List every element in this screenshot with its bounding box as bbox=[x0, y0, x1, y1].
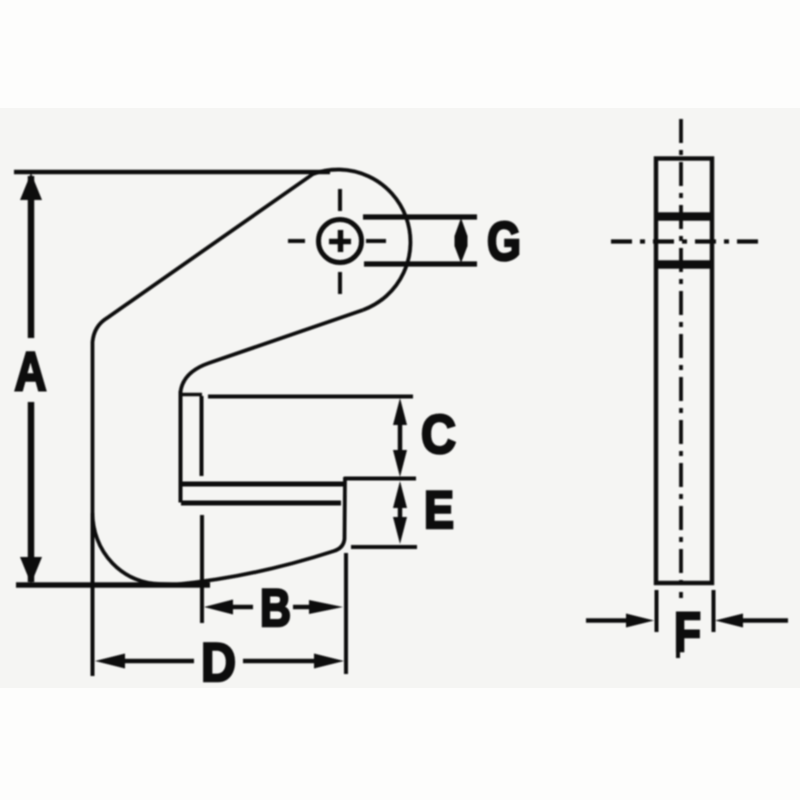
F arrow shafts bbox=[586, 618, 788, 623]
A arrow down bbox=[20, 557, 42, 584]
svg-text:G: G bbox=[487, 210, 521, 272]
body lower-right diagonal bbox=[181, 310, 364, 392]
E dimension shaft bbox=[398, 500, 403, 525]
E arrow down bbox=[393, 517, 407, 544]
B dimension lines bbox=[231, 605, 311, 610]
right view bbox=[586, 119, 788, 658]
svg-text:A: A bbox=[15, 340, 47, 402]
B left extension bbox=[200, 515, 204, 623]
vertical centerline bbox=[679, 119, 683, 598]
D arrow right bbox=[314, 654, 344, 669]
C dimension shaft bbox=[398, 420, 403, 455]
side rectangle bbox=[656, 159, 712, 584]
D dimension lines bbox=[124, 659, 315, 664]
jaw step top bbox=[179, 393, 202, 397]
clamp body lobe arc bbox=[313, 170, 410, 310]
F arrow left bbox=[626, 614, 654, 628]
A arrow up bbox=[20, 173, 42, 200]
C arrow up bbox=[393, 398, 407, 425]
hole bars bbox=[655, 217, 713, 265]
jaw far edge vertical bbox=[179, 391, 183, 503]
jaw near vertical bbox=[200, 396, 204, 476]
svg-text:E: E bbox=[424, 481, 454, 540]
svg-text:D: D bbox=[201, 631, 236, 693]
jaw top long line bbox=[208, 395, 413, 399]
C arrow down bbox=[393, 450, 407, 477]
B arrow right bbox=[309, 600, 343, 614]
A bottom extension bbox=[16, 582, 210, 587]
svg-text:C: C bbox=[421, 403, 456, 465]
hole centerline dashes bbox=[288, 189, 386, 294]
E bottom extension bbox=[351, 545, 417, 549]
C/E middle extension bbox=[344, 477, 416, 481]
arrowheads left view bbox=[20, 173, 468, 669]
extension line top (A) bbox=[14, 170, 330, 174]
D left extension bbox=[91, 513, 95, 676]
hole center cross bbox=[329, 230, 351, 252]
G lens arrow bbox=[455, 218, 468, 263]
E arrow up bbox=[393, 481, 407, 508]
svg-text:B: B bbox=[260, 579, 291, 638]
body upper-left diagonal and left edge and bottom bbox=[93, 174, 346, 585]
lip top line bbox=[181, 482, 344, 487]
F arrow right bbox=[715, 614, 743, 628]
B/D right extension bbox=[344, 553, 348, 674]
F extensions bbox=[657, 590, 714, 632]
G tangent lines bbox=[363, 217, 477, 264]
lip mid line bbox=[181, 501, 341, 506]
D arrow left bbox=[95, 654, 125, 669]
A dimension shafts bbox=[28, 176, 35, 582]
B arrow left bbox=[204, 600, 233, 615]
hole circle bbox=[319, 220, 362, 263]
horizontal centerline bbox=[611, 239, 760, 243]
